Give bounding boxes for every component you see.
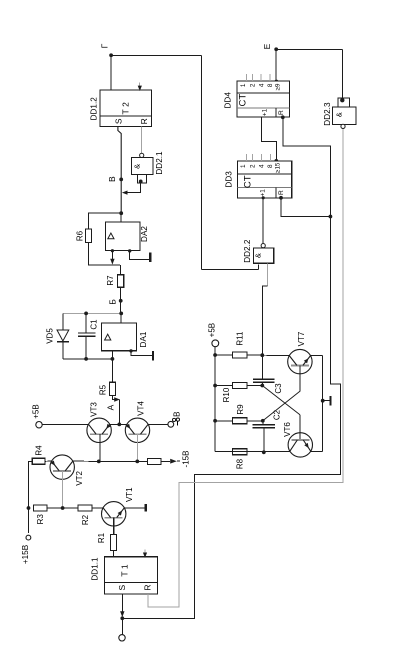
comparator DA1 box [102,323,137,351]
svg-text:-15В: -15В [181,451,190,468]
wire DD2.2 input 2 to multivibrator [263,263,268,355]
svg-text:R8: R8 [235,458,244,469]
junction dot +15В [27,506,31,510]
label R11 [235,331,244,346]
svg-text:VT3: VT3 [90,402,99,417]
transistor VT1 (NPN) [102,502,126,526]
junction dots C2 rows [261,419,266,454]
svg-text:+5В: +5В [32,404,41,418]
+5В rail of multivibrator [213,347,217,452]
svg-text:В: В [172,412,181,417]
label R4 [34,445,43,456]
svg-text:DD4: DD4 [223,92,232,109]
label DD1.2 [90,97,99,121]
junction dot above DA2 [119,211,123,215]
DD4 R pin label [278,110,285,115]
svg-text:1: 1 [240,83,247,87]
wire R6 bottom to DA2 output node [88,243,120,265]
reset bus down right side with jog [122,217,340,619]
svg-text:DD3: DD3 [225,171,234,188]
DD4 R pin dot [281,115,285,119]
wire R2 to VT1 [92,507,103,509]
-15В rail wire [99,460,148,462]
label DD2.1 [155,151,164,175]
svg-text:VT4: VT4 [136,401,145,416]
svg-text:&: & [133,164,142,169]
svg-text:В: В [107,176,117,182]
wire DD1.1 S pin down with arrow [120,594,124,620]
label DD4 [223,92,232,109]
output terminal circle [168,421,174,427]
label VT6 [283,422,292,437]
wire DD4 +1 to DD3 ≥15 output [262,117,279,163]
svg-text:R4: R4 [34,445,43,456]
wire Г junction down to DD1.2 pin [110,55,112,90]
svg-text:R6: R6 [75,230,84,241]
svg-text:Т 2: Т 2 [121,102,131,115]
transistor VT4 (PNP) [125,418,149,442]
svg-text:+1: +1 [262,108,269,116]
wire bus to DD2.2 input 1 [202,265,259,270]
label VD5 [46,328,55,344]
capacitor C3 [253,355,274,385]
svg-text:+15В: +15В [21,544,30,564]
terminal +5В (left) [32,404,43,428]
svg-text:CT: CT [242,175,253,188]
wire VT3 emitter to node A to VT4 emitter [110,423,127,425]
svg-text:CT: CT [238,94,249,107]
R9 row wire [215,420,263,422]
DD3 pin label ≥15 [275,162,282,173]
svg-text:Г: Г [100,43,110,48]
resistor R4 [32,458,45,464]
DD2.3 output bus to DD1.1 R pin [148,129,343,607]
wire vertical bus x=201.7 down to DD2.2 [201,55,203,269]
svg-text:DD2.1: DD2.1 [155,151,164,175]
svg-text:R2: R2 [81,514,90,525]
DD2.3 input tie dot [340,98,344,102]
label DA1 [139,331,148,347]
resistor R2 [78,505,92,511]
wire DA2 output node down to R7 [120,265,122,275]
wire VT2 base down to R3 rail [62,471,64,508]
resistor R6 [85,229,91,242]
emitter join wire [321,356,325,452]
wire Г junction right to DD2.2 input bus [111,54,202,56]
svg-text:8: 8 [267,164,274,168]
junction dot reset bus [329,215,333,219]
multivibrator ground symbol [323,396,331,406]
wire R4 left and down to +15В junction [29,461,33,508]
svg-text:R: R [278,110,285,115]
resistor R10 [233,383,248,389]
R8 row wire [215,451,233,453]
transistor VT2 (PNP) [50,455,74,479]
svg-text:+1: +1 [260,189,267,197]
DD4 +1 pin label [262,108,269,116]
DD1.1 clock input stub with arrow [143,549,147,558]
svg-text:DA2: DA2 [140,226,149,242]
node Г (label, junction dot) [100,43,113,57]
capacitor C1 [78,313,96,359]
svg-text:&: & [334,112,343,117]
label DD2.2 [243,239,252,263]
svg-text:Б: Б [108,299,118,305]
wire node Б rail into DA1 input [120,313,122,323]
gate DD2.1 (&) box with output bubble [131,153,153,174]
svg-text:VT7: VT7 [297,331,306,346]
arrow to -15В [161,459,180,464]
top rail of C1 VD5 cell [63,312,123,316]
resistor R8 [233,449,248,455]
gate DD2.2 (&) box with output bubble [253,244,273,264]
DD2.1 input notch with tie dot [138,175,147,184]
DD4 pin labels 1 2 4 8 [240,83,274,87]
svg-text:DD2.3: DD2.3 [323,102,332,126]
svg-text:&: & [254,253,263,258]
gate DD2.3 (&) box with input notch and output bubble [332,98,356,129]
svg-text:C3: C3 [274,383,283,394]
svg-text:C2: C2 [273,409,282,420]
wire R7 to node Б and top rail [120,287,122,313]
wire R1 to DD1.1 [113,551,115,557]
input terminal circle [119,618,125,641]
wire R4 to VT2 [45,460,51,462]
svg-text:R: R [142,585,152,591]
resistor (base bias) in -15В rail [148,458,161,464]
DD3 CT label [242,175,253,188]
label R3 [36,514,45,525]
resistor R5 [109,382,115,395]
diode VD5 [57,313,69,359]
wire VT4 right lead to output terminal [148,423,168,425]
capacitor C2 [253,421,276,453]
svg-text:S: S [117,584,127,590]
svg-text:А: А [106,404,116,410]
label R8 [235,458,244,469]
svg-text:R10: R10 [222,387,231,402]
svg-text:4: 4 [259,164,266,168]
wire VT6 emitter right [311,450,323,452]
svg-text:DD1.2: DD1.2 [90,97,99,121]
wire DD4 R pin to reset bus [283,118,331,217]
wire DD1.2 S pin down (node B line) [118,126,121,213]
svg-text:VT1: VT1 [125,487,134,502]
svg-text:DD1.1: DD1.1 [91,557,100,581]
VT1 collector to ground symbol [124,504,145,511]
wire VT1 base down to R1 [113,518,115,535]
DD1.2 clock input stub with arrow [138,83,142,92]
svg-text:R5: R5 [98,384,107,395]
wire Е down to DD4 output [275,49,279,83]
DD3 +1 pin label [260,189,267,197]
label VT2 [75,471,84,486]
flip-flop DD1.1 box [105,557,158,594]
svg-text:2: 2 [250,164,257,168]
node Б (label, dot) [108,299,123,305]
DD3 output stubs [247,154,271,161]
svg-text:Е: Е [262,43,272,49]
junction dots on -15В rail [97,460,139,464]
resistor R9 [233,418,248,424]
svg-text:R3: R3 [36,514,45,525]
svg-text:DD2.2: DD2.2 [243,239,252,263]
label DD1.1 [91,557,100,581]
wire VT4 base down to -15В rail [136,434,138,461]
DD4 CT label [238,94,249,107]
label C2 [273,409,282,420]
svg-text:VT2: VT2 [75,471,84,486]
R10 row wire [215,385,262,387]
svg-text:Т 1: Т 1 [120,564,130,577]
DD3 R pin label [278,190,285,195]
svg-text:≥15: ≥15 [275,162,282,173]
junction dots C3 row [260,384,264,388]
wire R11 to VT7 collector [247,353,289,357]
svg-text:R: R [139,118,149,124]
svg-text:DA1: DA1 [139,331,148,347]
svg-text:4: 4 [259,83,266,87]
svg-text:R: R [278,190,285,195]
wire VT7 emitter right [311,355,323,357]
label VT4 [136,401,145,416]
DD3 R pin dot [279,196,283,200]
DA1 ground pin and ground symbol [129,349,153,360]
svg-text:8: 8 [267,83,274,87]
resistor R1 [111,534,117,550]
wire junction to +15В terminal [28,508,30,533]
svg-text:R9: R9 [236,404,245,415]
svg-text:S: S [114,118,124,124]
svg-text:2: 2 [250,83,257,87]
cross-coupling wire C2 node to VT7 base [263,365,300,420]
DA2 ground pin and ground symbol [128,249,150,262]
label R1 [97,532,106,543]
wire R8 row to VT6 collector [233,450,290,452]
resistor R11 [233,352,248,358]
wire Е right to DD2.3 input [276,48,342,50]
transistor VT6 (NPN) [288,433,312,457]
wire VT2 collector to -15В rail [73,460,99,462]
wire DD2.1 inputs to node B line with arrow [122,183,141,195]
DD4 pin label ≥9 [275,83,282,90]
label R2 [81,514,90,525]
label DA2 [140,226,149,242]
wire +5В terminal to VT3 [42,423,88,425]
R11 row wire [215,354,233,356]
label C1 [90,319,99,330]
transistor VT7 (NPN) [288,349,312,373]
DD4 output stubs [247,74,271,81]
wire DA1 output to bottom rail [111,351,113,359]
terminal +15В [21,535,31,564]
svg-text:≥9: ≥9 [275,83,282,90]
transistor VT3 (PNP) [87,418,111,442]
wire Е line into DD2.3 inputs [341,49,343,98]
node В (label, dot) [107,176,123,182]
cross-coupling wire C3 node to VT6 base [262,386,300,440]
counter DD3 box [238,161,292,198]
bottom rail of C1 VD5 cell [63,357,114,361]
wire bottom rail down to R5 [111,359,113,382]
label R6 [75,230,84,241]
label DD2.3 [323,102,332,126]
wire DD3 R pin to reset bus [281,198,330,217]
wire VT3 base down to -15В rail [99,434,101,461]
label VT3 [90,402,99,417]
label R5 [98,384,107,395]
resistor R3 [34,505,47,511]
svg-text:VT6: VT6 [283,422,292,437]
DD3 pin labels 1 2 4 8 [240,164,274,168]
wire junction left and down to R6 [88,213,121,229]
svg-text:+5В: +5В [207,323,216,337]
wire R3 to VT2-base junction [47,506,78,510]
label -15В [181,451,190,468]
label DD3 [225,171,234,188]
label C3 [274,383,283,394]
svg-text:R1: R1 [97,532,106,543]
comparator DA2 box [105,222,140,250]
wire node B line into DA2 input [120,213,122,222]
label R9 [236,404,245,415]
output terminal label [172,412,181,426]
svg-text:R11: R11 [235,331,244,346]
flip-flop DD1.2 box [100,90,152,126]
label VT7 [297,331,306,346]
svg-text:1: 1 [240,164,247,168]
svg-text:R7: R7 [106,275,115,286]
wire DD2.2 output to DD3 +1 input [262,196,265,243]
label R10 [222,387,231,402]
counter DD4 box [237,81,290,117]
resistor R7 [118,275,124,288]
label R7 [106,275,115,286]
svg-text:C1: C1 [90,319,99,330]
node Е (label, junction dot) [262,43,278,51]
wire DD1.2 R pin to DD2.1 output [141,126,143,153]
terminal +5В (right) [207,323,218,347]
wire DA2 output down with arrow [110,249,114,265]
node А (label, junction dot) [106,404,122,426]
svg-text:VD5: VD5 [46,328,55,344]
wire R5 to node A with arrow [112,396,120,425]
label VT1 [125,487,134,502]
